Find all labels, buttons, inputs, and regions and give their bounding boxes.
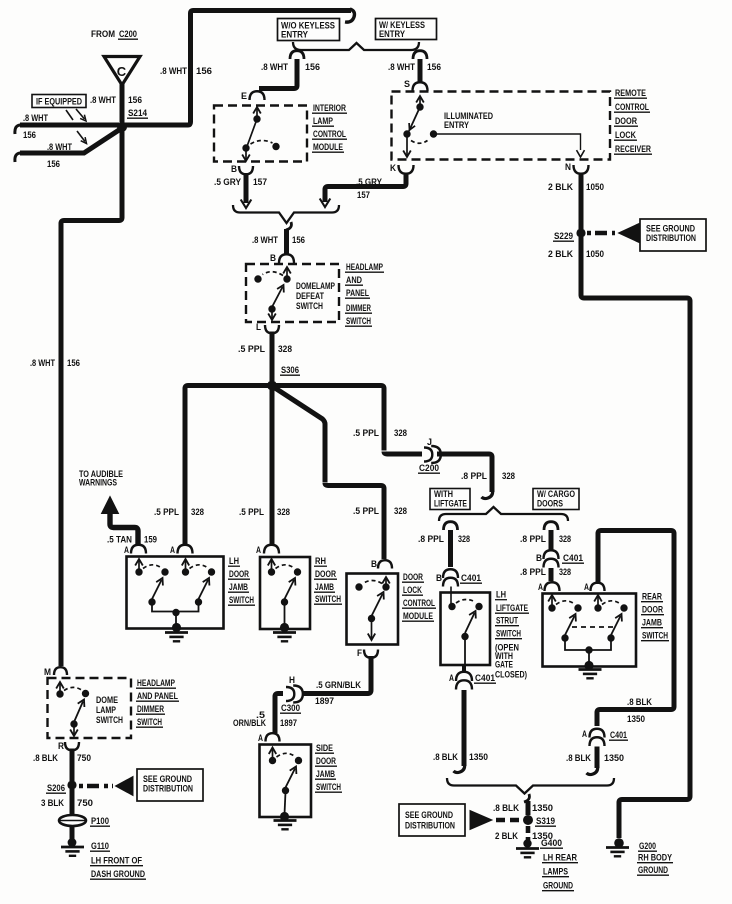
svg-text:156: 156 — [427, 62, 441, 73]
wire K to splice brace (.5 GRY 157) — [325, 173, 406, 203]
svg-text:LH: LH — [229, 556, 239, 567]
svg-text:.5 PPL: .5 PPL — [154, 507, 179, 518]
svg-text:LH REAR: LH REAR — [543, 853, 577, 864]
svg-text:DIMMER: DIMMER — [137, 704, 164, 715]
label box W/ CARGO DOORS — [533, 489, 579, 510]
wire branch w/o keyless to interior lamp control module E — [290, 51, 304, 59]
wire audible warnings to LH jamb A (.5 TAN 159) — [110, 512, 138, 545]
wire P100 to G110 — [70, 827, 75, 840]
svg-text:JAMB: JAMB — [316, 769, 335, 780]
svg-text:S214: S214 — [128, 108, 148, 119]
svg-text:.5 GRN/BLK: .5 GRN/BLK — [316, 680, 361, 691]
svg-text:LOCK: LOCK — [403, 585, 422, 596]
svg-text:CONTROL: CONTROL — [403, 598, 435, 609]
svg-text:ENTRY: ENTRY — [281, 30, 308, 40]
svg-text:B: B — [231, 164, 237, 175]
svg-text:LH FRONT OF: LH FRONT OF — [91, 856, 142, 867]
door lock control module box — [347, 574, 399, 645]
svg-text:DISTRIBUTION: DISTRIBUTION — [143, 784, 193, 794]
LH door jamb switch box — [127, 557, 224, 629]
svg-text:A: A — [256, 545, 261, 556]
svg-text:A: A — [258, 733, 263, 744]
wire LH jamb common to ground — [152, 604, 199, 612]
svg-text:JAMB: JAMB — [642, 618, 662, 629]
svg-text:.8 BLK: .8 BLK — [493, 803, 519, 814]
wire J to liftgate split brace (.8 PPL 328) — [437, 454, 492, 492]
svg-text:SWITCH: SWITCH — [496, 629, 521, 640]
svg-text:SWITCH: SWITCH — [642, 631, 668, 642]
switch rear door jamb unit 1 — [551, 597, 553, 608]
switch door lock control module — [385, 579, 387, 587]
svg-text:SWITCH: SWITCH — [315, 594, 341, 605]
svg-text:B: B — [436, 573, 442, 584]
switch dome lamp — [59, 684, 61, 694]
svg-text:156: 156 — [67, 358, 80, 369]
ground G110 — [61, 846, 84, 849]
svg-text:G110: G110 — [91, 841, 109, 852]
svg-text:C401: C401 — [563, 553, 584, 564]
svg-text:WARNINGS: WARNINGS — [79, 478, 117, 489]
svg-text:.8 WHT: .8 WHT — [252, 235, 278, 246]
switch rear door jamb unit 2 — [597, 597, 599, 608]
svg-text:.8 PPL: .8 PPL — [520, 534, 546, 545]
svg-text:DOOR: DOOR — [615, 116, 637, 127]
svg-text:SWITCH: SWITCH — [229, 595, 254, 606]
svg-text:LIFTGATE: LIFTGATE — [496, 603, 528, 614]
svg-text:P100: P100 — [91, 816, 109, 827]
wire R to S206 (.8 BLK 750) — [70, 749, 75, 782]
svg-text:L: L — [256, 322, 261, 333]
arrow IF EQUIPPED to wire 1 — [66, 110, 73, 120]
svg-text:A: A — [584, 582, 589, 593]
svg-text:A: A — [124, 545, 129, 556]
domelamp defeat switch box — [246, 264, 339, 322]
svg-text:STRUT: STRUT — [496, 616, 518, 627]
see ground distribution box (S319) — [399, 804, 465, 836]
svg-text:ENTRY: ENTRY — [444, 120, 470, 131]
svg-text:DISTRIBUTION: DISTRIBUTION — [646, 233, 696, 243]
svg-text:159: 159 — [144, 535, 157, 546]
grommet P100 — [59, 815, 86, 826]
svg-text:.8 PPL: .8 PPL — [461, 471, 487, 482]
svg-text:1350: 1350 — [532, 803, 553, 814]
wire incoming .8 WHT left 1 — [20, 123, 119, 128]
svg-text:LAMP: LAMP — [313, 116, 333, 127]
svg-text:RH BODY: RH BODY — [638, 853, 673, 864]
svg-text:.8 WHT: .8 WHT — [47, 142, 72, 153]
switch LH door jamb unit 2 — [185, 561, 187, 572]
svg-text:JAMB: JAMB — [315, 582, 334, 593]
svg-text:S206: S206 — [47, 783, 65, 794]
svg-text:B: B — [270, 253, 276, 264]
wire RH jamb to ground — [284, 604, 286, 625]
svg-text:157: 157 — [357, 190, 370, 201]
wire S229 to G200 (2 BLK 1050) right rail — [581, 237, 690, 838]
svg-text:WITH: WITH — [434, 489, 453, 499]
dashes S229 to see ground distribution — [587, 231, 615, 235]
wire branch w/ keyless to receiver S — [413, 51, 427, 59]
svg-text:B: B — [536, 553, 542, 564]
svg-text:2 BLK: 2 BLK — [548, 182, 573, 193]
wire S306 to LH door jamb switch A (left branch) — [185, 386, 270, 546]
svg-text:.8 BLK: .8 BLK — [566, 753, 591, 764]
svg-text:750: 750 — [77, 753, 91, 764]
svg-text:LH: LH — [496, 590, 506, 601]
svg-text:K: K — [390, 163, 396, 174]
RH door jamb switch box — [260, 557, 310, 629]
wire brace to S319 (.8 BLK 1350) — [524, 794, 529, 802]
svg-text:.8 WHT: .8 WHT — [23, 113, 48, 124]
svg-text:ENTRY: ENTRY — [379, 29, 405, 39]
rear door jamb switch box — [543, 594, 637, 667]
svg-text:.8 BLK: .8 BLK — [33, 753, 58, 764]
node S229 — [576, 228, 585, 237]
svg-text:1050: 1050 — [586, 249, 604, 260]
wire triangle C to S214 — [120, 80, 125, 123]
label box IF EQUIPPED — [32, 95, 86, 108]
switch remote receiver — [416, 103, 423, 110]
svg-text:E: E — [241, 91, 247, 102]
svg-text:1350: 1350 — [627, 714, 645, 725]
wire side jamb to ground — [285, 792, 286, 814]
svg-text:.5 PPL: .5 PPL — [239, 507, 264, 518]
svg-text:C200: C200 — [419, 463, 439, 474]
svg-text:C300: C300 — [281, 703, 300, 714]
wire A C401 to merge brace (.8 BLK 1350) — [595, 747, 600, 769]
svg-text:FROM: FROM — [91, 29, 115, 40]
node S206 — [67, 780, 76, 789]
svg-text:.8 WHT: .8 WHT — [261, 62, 288, 73]
brace keyless split — [293, 42, 419, 50]
brace liftgate split — [439, 507, 568, 521]
svg-text:N: N — [565, 162, 571, 173]
svg-text:REAR: REAR — [642, 592, 662, 603]
svg-text:750: 750 — [77, 798, 93, 809]
svg-text:PANEL: PANEL — [346, 288, 369, 299]
svg-text:HEADLAMP: HEADLAMP — [346, 262, 383, 273]
svg-text:DOOR: DOOR — [315, 569, 336, 580]
svg-text:1350: 1350 — [469, 752, 488, 763]
svg-text:G400: G400 — [541, 838, 562, 849]
svg-text:DISTRIBUTION: DISTRIBUTION — [405, 821, 455, 831]
wire L to S306 (.5 PPL 328) — [270, 332, 275, 382]
wire rear jamb common to ground — [565, 640, 611, 650]
svg-text:C: C — [117, 64, 127, 79]
switch LH liftgate strut — [450, 587, 452, 606]
svg-text:1050: 1050 — [586, 182, 604, 193]
switch interior lamp control module — [256, 109, 258, 119]
svg-text:RECEIVER: RECEIVER — [615, 144, 651, 155]
svg-text:CONTROL: CONTROL — [313, 129, 346, 140]
arrow see ground distribution (S229) — [619, 224, 640, 243]
svg-text:.8 WHT: .8 WHT — [90, 95, 116, 106]
arrow to pin B interior module — [245, 150, 247, 159]
svg-text:B: B — [371, 559, 377, 570]
wire S306 diagonal to door lock control module B — [274, 387, 385, 559]
svg-text:SWITCH: SWITCH — [296, 301, 323, 312]
svg-text:S306: S306 — [281, 365, 299, 376]
svg-text:S229: S229 — [554, 231, 573, 242]
svg-text:.5 PPL: .5 PPL — [238, 344, 265, 355]
svg-text:157: 157 — [253, 177, 267, 188]
svg-text:328: 328 — [191, 507, 204, 518]
ground side door jamb switch — [274, 819, 297, 822]
svg-text:G200: G200 — [639, 841, 656, 852]
svg-text:328: 328 — [277, 507, 290, 518]
svg-text:SWITCH: SWITCH — [316, 782, 341, 793]
svg-text:DOOR: DOOR — [642, 605, 663, 616]
svg-text:SEE GROUND: SEE GROUND — [405, 810, 453, 820]
wire N to S229 (2 BLK 1050) — [579, 173, 584, 230]
svg-text:.5 TAN: .5 TAN — [107, 535, 132, 546]
svg-text:.5 PPL: .5 PPL — [353, 428, 379, 439]
wire illuminated entry to pin N — [434, 134, 581, 150]
svg-text:156: 156 — [47, 159, 60, 170]
svg-text:SEE GROUND: SEE GROUND — [143, 774, 192, 784]
ground rear door jamb switch — [579, 668, 602, 671]
svg-text:DOORS: DOORS — [537, 499, 563, 509]
svg-text:328: 328 — [559, 534, 571, 545]
svg-text:SWITCH: SWITCH — [96, 715, 123, 726]
wire B interior module to splice brace (.5 GRY 157) — [244, 173, 249, 203]
svg-text:CONTROL: CONTROL — [615, 102, 649, 113]
wire S319 to G400 (2 BLK 1350) — [526, 826, 531, 841]
svg-text:ORN/BLK: ORN/BLK — [233, 718, 266, 729]
svg-text:.5 GRY: .5 GRY — [356, 177, 383, 188]
wire S306 to RH door jamb switch A (center) — [270, 388, 275, 545]
svg-text:156: 156 — [305, 62, 320, 73]
svg-text:C401: C401 — [461, 573, 482, 584]
svg-text:DOOR: DOOR — [229, 569, 249, 580]
remote control door lock receiver box — [392, 92, 611, 160]
svg-text:S: S — [404, 79, 410, 90]
dome lamp switch box — [48, 678, 132, 738]
svg-text:A: A — [449, 673, 454, 684]
svg-text:.8 BLK: .8 BLK — [433, 752, 458, 763]
svg-text:IF EQUIPPED: IF EQUIPPED — [36, 97, 82, 107]
wire C300 to side door jamb A (.5 ORN/BLK 1897) — [275, 694, 283, 734]
wire S306 right to connector J C200 — [274, 386, 422, 455]
svg-text:DOOR: DOOR — [316, 756, 336, 767]
svg-text:328: 328 — [394, 428, 407, 439]
see ground distribution box (S206) — [137, 769, 203, 801]
svg-text:LAMPS: LAMPS — [543, 867, 568, 878]
connector C (triangle from C200) — [104, 57, 140, 86]
svg-text:JAMB: JAMB — [229, 582, 248, 593]
svg-text:LOCK: LOCK — [615, 130, 636, 141]
label box WITH LIFTGATE — [430, 489, 470, 510]
svg-text:AND: AND — [346, 275, 362, 286]
svg-text:.8 WHT: .8 WHT — [160, 66, 187, 77]
arrow to pin K — [406, 136, 408, 155]
svg-text:GROUND: GROUND — [543, 881, 573, 892]
svg-text:SWITCH: SWITCH — [346, 316, 371, 327]
svg-text:LIFTGATE: LIFTGATE — [434, 499, 467, 509]
wire S214 up and right to keyless split — [124, 11, 351, 126]
wire rear jamb A2 elbow to A C401 (.8 BLK 1350) — [597, 531, 674, 727]
svg-text:156: 156 — [128, 95, 142, 106]
svg-text:2 BLK: 2 BLK — [495, 831, 518, 842]
ground G400 — [516, 847, 539, 850]
wire incoming .8 WHT left 2 — [20, 130, 119, 153]
svg-text:RH: RH — [315, 556, 326, 567]
ground G200 — [606, 846, 629, 849]
svg-text:A: A — [538, 582, 543, 593]
svg-text:CLOSED): CLOSED) — [495, 670, 527, 681]
svg-text:AND PANEL: AND PANEL — [137, 691, 178, 702]
svg-text:C401: C401 — [610, 730, 628, 741]
ground RH door jamb switch — [273, 631, 296, 634]
brace merge BLK wires — [447, 778, 614, 794]
switch RH door jamb — [271, 561, 273, 572]
svg-text:156: 156 — [292, 235, 305, 246]
node S214 — [117, 122, 127, 132]
side door jamb switch box — [260, 745, 312, 818]
svg-text:W/ CARGO: W/ CARGO — [537, 489, 575, 499]
dashes S206 to see ground distribution — [79, 784, 113, 788]
svg-text:C200: C200 — [119, 29, 137, 40]
svg-text:328: 328 — [394, 506, 407, 517]
svg-text:328: 328 — [278, 344, 292, 355]
svg-text:GROUND: GROUND — [638, 865, 668, 876]
wire S214 to dome lamp switch M (left rail) — [61, 129, 122, 666]
svg-text:1897: 1897 — [315, 696, 334, 707]
svg-text:SEE GROUND: SEE GROUND — [646, 224, 695, 234]
arrow to audible warnings — [102, 497, 119, 514]
svg-text:DIMMER: DIMMER — [346, 303, 371, 314]
label box W/ KEYLESS ENTRY — [376, 19, 437, 40]
svg-text:SWITCH: SWITCH — [137, 717, 162, 728]
wire liftgate strut to merge brace (.8 BLK 1350) — [462, 690, 467, 766]
brace merge GRY wires — [233, 205, 339, 223]
wire S206 to P100 (3 BLK 750) — [70, 789, 75, 814]
ground LH door jamb switch — [165, 631, 188, 634]
wire end hook at keyless split — [345, 9, 355, 22]
switch LH door jamb unit 1 — [138, 561, 140, 572]
svg-text:SIDE: SIDE — [316, 743, 333, 754]
interior lamp control module box — [214, 106, 307, 162]
wire C401 to rear door jamb A (.8 PPL 328) — [549, 568, 554, 581]
svg-text:156: 156 — [196, 66, 212, 77]
svg-text:A: A — [170, 545, 175, 556]
svg-text:.5 GRY: .5 GRY — [214, 177, 242, 188]
svg-text:MODULE: MODULE — [313, 142, 343, 153]
svg-text:1350: 1350 — [604, 753, 624, 764]
svg-text:A: A — [582, 729, 587, 740]
svg-text:328: 328 — [458, 534, 470, 545]
svg-text:328: 328 — [559, 567, 571, 578]
svg-text:.8 PPL: .8 PPL — [418, 534, 444, 545]
svg-text:.5 PPL: .5 PPL — [353, 506, 379, 517]
svg-text:S319: S319 — [536, 816, 555, 827]
svg-text:DASH GROUND: DASH GROUND — [91, 869, 145, 880]
svg-text:.8 BLK: .8 BLK — [627, 697, 652, 708]
wire brace to domelamp defeat switch B (.8 WHT 156) — [286, 222, 291, 230]
svg-text:.8 WHT: .8 WHT — [388, 62, 415, 73]
svg-text:.8 PPL: .8 PPL — [520, 567, 546, 578]
svg-text:C401: C401 — [475, 673, 496, 684]
svg-text:DOOR: DOOR — [403, 572, 423, 583]
svg-text:328: 328 — [502, 471, 515, 482]
arrow IF EQUIPPED to wire 2 — [77, 131, 85, 142]
wire cargo branch to B C401 (.8 PPL 328) — [544, 522, 558, 530]
wire liftgate branch to B C401 (.8 PPL 328) — [444, 522, 458, 530]
svg-text:R: R — [58, 741, 64, 752]
arrow see ground distribution (S206) — [116, 777, 134, 796]
svg-text:1897: 1897 — [280, 718, 297, 729]
svg-text:INTERIOR: INTERIOR — [313, 103, 346, 114]
label box W/O KEYLESS ENTRY — [278, 19, 340, 41]
svg-text:3 BLK: 3 BLK — [41, 798, 64, 809]
svg-text:M: M — [44, 667, 51, 678]
arrow see ground distribution (S319) — [470, 811, 492, 830]
svg-text:HEADLAMP: HEADLAMP — [137, 678, 175, 689]
LH liftgate strut switch box — [441, 593, 491, 666]
mechanical link rear door jamb — [572, 626, 616, 628]
svg-text:.8 WHT: .8 WHT — [30, 358, 55, 369]
svg-text:2 BLK: 2 BLK — [548, 249, 573, 260]
node S306 — [267, 381, 277, 391]
wire F to connector H C300 (.5 GRN/BLK 1897) — [303, 656, 371, 694]
switch domelamp defeat — [286, 269, 288, 279]
switch side door jamb — [272, 750, 274, 761]
see ground distribution box (S229) — [640, 219, 706, 251]
svg-text:F: F — [357, 648, 362, 659]
node S319 — [523, 815, 533, 825]
svg-text:REMOTE: REMOTE — [615, 88, 646, 99]
svg-text:MODULE: MODULE — [403, 611, 433, 622]
svg-text:156: 156 — [23, 130, 36, 141]
